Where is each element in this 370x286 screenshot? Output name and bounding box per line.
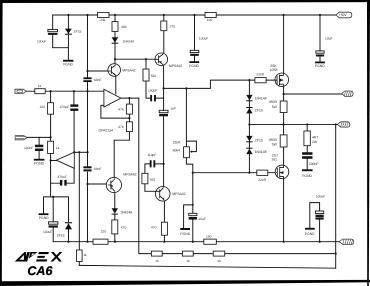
svg-text:220: 220 xyxy=(101,230,107,234)
wire 100uF bottom right branch xyxy=(310,203,320,242)
diode 1N4148 Q3 emitter xyxy=(112,208,118,213)
svg-text:470: 470 xyxy=(121,226,127,230)
svg-text:1k: 1k xyxy=(186,259,190,263)
svg-text:1uF: 1uF xyxy=(170,107,176,111)
svg-text:100uF: 100uF xyxy=(37,40,46,44)
junction upper source node xyxy=(283,93,285,95)
ground PGND zobel xyxy=(302,169,313,171)
wire op-amp A output xyxy=(121,97,139,99)
diode zener ZF15 chain upper xyxy=(246,108,252,113)
resistor 1k divider xyxy=(48,141,54,153)
svg-text:PGND: PGND xyxy=(180,232,190,236)
svg-text:562: 562 xyxy=(151,74,157,78)
terminal -50V xyxy=(339,239,354,244)
resistor 220R lower gate xyxy=(257,170,268,175)
svg-text:470: 470 xyxy=(151,226,157,230)
wire input terminal 2 xyxy=(27,136,51,138)
junction op-amp A output node xyxy=(128,97,130,99)
op-amp U1A OPA2134 xyxy=(104,89,121,107)
wire upper mosfet drain xyxy=(283,15,285,75)
capacitor 100pF compensation xyxy=(150,95,152,102)
junction dots on positive rail xyxy=(67,14,69,16)
terminal input 1 xyxy=(15,89,26,93)
svg-text:2W: 2W xyxy=(312,140,318,144)
svg-text:5W: 5W xyxy=(272,105,278,109)
wire negative rail xyxy=(53,241,339,243)
wire zobel branch xyxy=(306,124,308,169)
resistor 220 input xyxy=(48,103,54,115)
resistor 562 Q4 base xyxy=(142,173,148,184)
svg-text:470nF: 470nF xyxy=(58,175,67,179)
svg-text:499: 499 xyxy=(121,25,127,29)
resistor 270 xyxy=(161,21,167,31)
wire top positive rail xyxy=(53,14,336,16)
transistor Q2 MPSA92 xyxy=(155,53,168,66)
svg-text:PGND: PGND xyxy=(302,174,312,178)
resistor 220 negative rail xyxy=(93,239,108,244)
ground PGND right rail xyxy=(315,62,325,64)
junction Q3 base node xyxy=(86,183,88,185)
wire bottom return line xyxy=(79,265,335,268)
svg-text:1k: 1k xyxy=(155,259,159,263)
svg-text:0R33: 0R33 xyxy=(269,138,277,142)
ground PGND bottom right xyxy=(305,228,315,230)
capacitor 470pF input xyxy=(70,104,78,106)
resistor 1k feedback 2 xyxy=(182,251,193,256)
wire Q4 emitter xyxy=(163,201,165,242)
wire bias trimmer branch xyxy=(186,88,196,241)
ground PGND bottom-left xyxy=(39,213,49,215)
capacitor 10uF right rail xyxy=(316,51,324,53)
svg-text:220: 220 xyxy=(40,105,46,109)
svg-text:1N4148: 1N4148 xyxy=(255,96,267,100)
capacitor 100uF mid rail xyxy=(190,50,199,52)
capacitor 110pF Q4 xyxy=(150,160,152,167)
wire zener ZF15 branch top-left xyxy=(67,15,69,60)
resistor 562 xyxy=(143,69,149,81)
resistor 1k left bottom xyxy=(77,250,83,262)
svg-text:470pF: 470pF xyxy=(60,105,69,109)
junction zener bias bottom node xyxy=(52,196,54,198)
svg-text:100nF: 100nF xyxy=(24,146,33,150)
svg-text:CA6: CA6 xyxy=(27,264,53,278)
wire diode chain vertical xyxy=(248,80,250,173)
wire rail cap 10uF right xyxy=(319,15,321,62)
resistor 1k feedback 1 xyxy=(151,251,162,256)
svg-text:1N4148: 1N4148 xyxy=(120,210,132,214)
diode zener ZF15 bottom-left xyxy=(65,223,72,229)
ground PGND bias xyxy=(180,228,190,230)
svg-text:ZF15: ZF15 xyxy=(57,234,65,238)
svg-text:22kR: 22kR xyxy=(173,141,181,145)
svg-text:220R: 220R xyxy=(258,178,267,182)
resistor 1k feedback 3 xyxy=(213,251,225,256)
terminal input 2 xyxy=(15,136,27,140)
terminal +50V xyxy=(336,12,352,18)
op-amp U1B OPA2134 xyxy=(56,152,74,168)
svg-text:68nF: 68nF xyxy=(94,78,102,82)
wire 470pF branch xyxy=(73,91,75,152)
wire feedback from output xyxy=(335,124,337,268)
junction Q1 collector node xyxy=(114,58,116,60)
resistor 100 rail xyxy=(205,12,216,17)
junction dots op-amp B noninverting node xyxy=(73,151,75,153)
junction 110pF node xyxy=(163,163,165,165)
svg-text:24k: 24k xyxy=(100,18,106,22)
wire 562 to 100pF xyxy=(146,59,164,98)
capacitor 68nF bus upper xyxy=(83,77,91,79)
wire upper gate drive xyxy=(164,80,275,88)
svg-text:ZF15: ZF15 xyxy=(74,30,82,34)
capacitor 68nF bus lower xyxy=(83,166,91,168)
wire upper mosfet source chain xyxy=(283,84,285,167)
diode zener ZF15 chain lower xyxy=(246,136,252,141)
svg-text:MPSA42: MPSA42 xyxy=(122,69,135,73)
wire lower gate drive xyxy=(193,172,276,174)
svg-text:1N4148: 1N4148 xyxy=(255,150,267,154)
svg-text:162: 162 xyxy=(271,158,277,162)
wire rail cap 100uF middle xyxy=(194,15,196,61)
junction bias decoupling node xyxy=(192,204,194,206)
ground PGND input xyxy=(34,159,45,161)
capacitor 1uF drive line xyxy=(159,110,168,112)
svg-text:110pF: 110pF xyxy=(147,153,156,157)
resistor 499 xyxy=(112,22,118,32)
svg-text:PGND: PGND xyxy=(39,216,49,220)
svg-text:+50V: +50V xyxy=(339,13,348,17)
wire op-amp B node down to bias network xyxy=(50,183,52,197)
capacitor 100nF input terminal 2 xyxy=(35,145,43,148)
svg-text:1k: 1k xyxy=(83,253,87,257)
svg-text:1k: 1k xyxy=(217,259,221,263)
capacitor 470nF op-amp B xyxy=(60,180,62,186)
diode 1N4148 Q1 chain xyxy=(112,37,119,43)
svg-text:10uF: 10uF xyxy=(325,37,333,41)
resistor 24k rail xyxy=(98,12,109,17)
capacitor 100uF bottom right xyxy=(316,211,324,214)
svg-text:OPA2134: OPA2134 xyxy=(99,128,114,132)
resistor 220R upper gate xyxy=(255,78,266,83)
wire input signal line xyxy=(26,90,104,92)
svg-text:68nF: 68nF xyxy=(94,167,102,171)
wire output node 2 xyxy=(249,123,337,125)
junction dots on input node xyxy=(50,90,52,92)
svg-text:100: 100 xyxy=(206,235,212,239)
wire Q3 collector to divider xyxy=(114,132,129,178)
wire lower mosfet drain down xyxy=(283,177,285,242)
ground PGND top-left xyxy=(63,60,73,62)
wire trimmer pgnd branch xyxy=(184,205,193,228)
wire bottom-left zener network xyxy=(44,197,69,242)
svg-text:4R7: 4R7 xyxy=(312,135,318,139)
svg-text:100nF: 100nF xyxy=(309,162,319,166)
svg-text:270: 270 xyxy=(170,25,176,29)
transistor Q3 MPSA92 xyxy=(106,177,121,192)
wire op-amp A feedback U xyxy=(101,105,129,118)
junction feedback bottom corner xyxy=(335,253,337,255)
svg-text:PGND: PGND xyxy=(34,162,44,166)
svg-text:MPSA92: MPSA92 xyxy=(123,172,136,176)
terminal output upper xyxy=(342,91,354,96)
wire Q1 base xyxy=(88,70,109,72)
capacitor 100nF zobel xyxy=(302,152,312,155)
svg-text:PGND: PGND xyxy=(189,64,199,68)
junction trimmer wiper xyxy=(190,151,192,153)
wire 110pF coupling xyxy=(145,164,164,191)
svg-text:100uF: 100uF xyxy=(199,37,208,41)
transistor Q4 MPSA42 xyxy=(155,187,170,202)
wire left bias bus xyxy=(88,15,108,242)
junction feedback divider node xyxy=(128,117,130,119)
capacitor 100uF bottom-left polarized xyxy=(49,222,58,224)
svg-text:ZF15: ZF15 xyxy=(255,109,263,113)
svg-text:100uF: 100uF xyxy=(43,230,52,234)
svg-text:1k: 1k xyxy=(38,84,42,88)
capacitor 10uF bias xyxy=(189,213,197,215)
wire 1k ground return branch xyxy=(78,152,80,265)
resistor 4.7k lower xyxy=(126,122,132,132)
resistor bias trimmer xyxy=(184,147,190,158)
diode 1N4148 chain upper xyxy=(246,95,252,100)
resistor 1k input xyxy=(35,89,45,94)
svg-text:1N4148: 1N4148 xyxy=(123,40,135,44)
svg-text:47k: 47k xyxy=(118,125,124,129)
svg-text:562: 562 xyxy=(150,177,156,181)
wire Q2 collector xyxy=(163,15,165,53)
svg-text:220R: 220R xyxy=(256,73,265,77)
wire Q3 emitter chain xyxy=(114,193,116,242)
svg-text:100uF: 100uF xyxy=(316,195,325,199)
wire 220 and 1k divider chain xyxy=(50,91,52,183)
ground PGND mid rail xyxy=(189,61,199,63)
resistor 470 Q3 xyxy=(112,220,118,234)
svg-text:PGND: PGND xyxy=(63,63,73,67)
svg-text:60k4: 60k4 xyxy=(173,149,180,153)
resistor 4.7k upper xyxy=(126,104,132,114)
junction inverting input branch xyxy=(50,136,52,138)
resistor 470 Q4 xyxy=(161,222,167,235)
svg-text:0R33: 0R33 xyxy=(269,100,277,104)
svg-text:47k: 47k xyxy=(118,107,124,111)
wire op-amp output down and feedback bottom line xyxy=(139,98,336,254)
wire Q2 emitter down through 1uF xyxy=(163,66,165,187)
junction dots gate drive node xyxy=(163,87,165,89)
logo APEX xyxy=(15,252,63,262)
resistor 0R33 upper xyxy=(280,101,287,113)
wire node Q1 collector to Q2 base xyxy=(115,58,155,60)
svg-text:1058: 1058 xyxy=(270,68,278,72)
junction dots output node xyxy=(248,123,250,125)
diode ZF15 top-left xyxy=(65,29,72,34)
svg-text:1k: 1k xyxy=(56,146,60,150)
svg-text:PGND: PGND xyxy=(305,232,315,236)
junction dots on negative rail xyxy=(67,241,69,243)
wire 100uF cap leads top-left xyxy=(53,15,69,48)
wire 4.7k divider xyxy=(128,98,130,122)
wire op-amp B output node xyxy=(51,160,58,162)
svg-text:ZF15: ZF15 xyxy=(255,139,263,143)
wire output node 1 xyxy=(284,93,342,95)
diode 1N4148 chain lower xyxy=(246,149,252,154)
resistor 0R33 lower xyxy=(280,135,287,147)
svg-text:100pF: 100pF xyxy=(148,88,157,92)
svg-text:100: 100 xyxy=(207,18,213,22)
svg-text:5W: 5W xyxy=(272,142,278,146)
resistor 4R7 zobel xyxy=(304,131,310,146)
terminal output lower xyxy=(338,122,350,127)
junction Q1 base node xyxy=(86,70,88,72)
wire Q1 emitter to op-amp V+ xyxy=(115,76,117,94)
capacitor 100uF top-left polarized xyxy=(48,29,58,31)
resistor 100 negative rail xyxy=(204,239,217,244)
wire 100nF to PGND branch xyxy=(38,137,40,158)
wire op-amp B noninverting input to bus xyxy=(74,151,87,153)
svg-text:PGND: PGND xyxy=(315,64,325,68)
transistor M1 2SK1058 mosfet xyxy=(275,73,289,87)
svg-text:MPSA92: MPSA92 xyxy=(169,64,182,68)
junction dots lower gate node xyxy=(192,172,194,174)
wire 470nF feedback xyxy=(51,169,75,184)
svg-text:MPSA42: MPSA42 xyxy=(172,192,185,196)
transistor Q1 MPSA42 xyxy=(108,64,121,77)
svg-text:10uF: 10uF xyxy=(198,217,206,221)
transistor M2 2SJ162 mosfet xyxy=(275,165,289,179)
wire Q1 collector chain xyxy=(114,15,116,64)
